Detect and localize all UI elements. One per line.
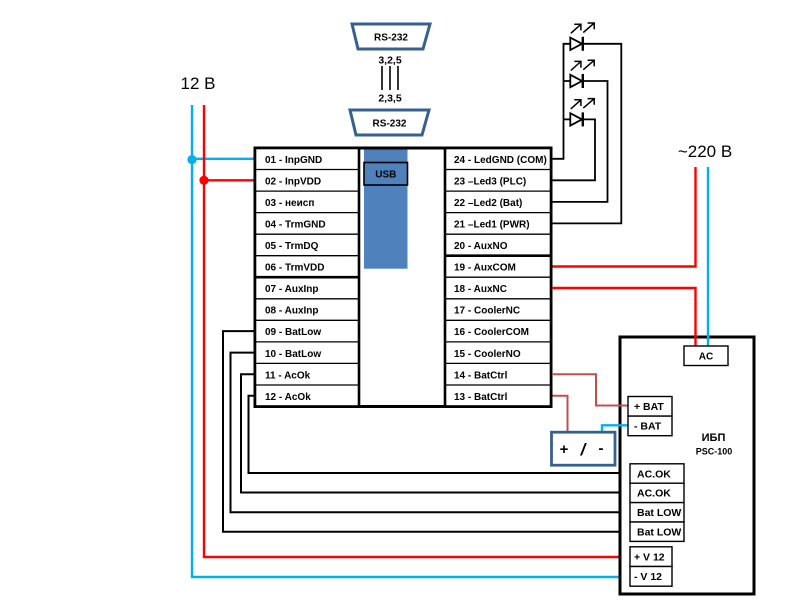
svg-text:24 - LedGND (COM): 24 - LedGND (COM) — [454, 155, 547, 166]
svg-text:02 - InpVDD: 02 - InpVDD — [265, 176, 321, 187]
svg-text:11 - AcOk: 11 - AcOk — [265, 370, 311, 381]
svg-text:07 - AuxInp: 07 - AuxInp — [265, 284, 319, 295]
svg-text:12 - AcOk: 12 - AcOk — [265, 392, 311, 403]
svg-text:22 –Led2 (Bat): 22 –Led2 (Bat) — [454, 198, 522, 209]
svg-text:PSC-100: PSC-100 — [696, 447, 733, 457]
svg-text:+ BAT: + BAT — [634, 401, 664, 413]
svg-text:+ V 12: + V 12 — [634, 551, 665, 563]
svg-text:12 В: 12 В — [181, 74, 216, 93]
svg-text:14 - BatCtrl: 14 - BatCtrl — [454, 370, 508, 381]
svg-text:16 - CoolerCOM: 16 - CoolerCOM — [454, 327, 529, 338]
svg-text:10 - BatLow: 10 - BatLow — [265, 349, 321, 360]
svg-text:RS-232: RS-232 — [373, 119, 407, 130]
svg-text:2,3,5: 2,3,5 — [378, 93, 402, 105]
svg-text:20 - AuxNO: 20 - AuxNO — [454, 241, 508, 252]
svg-text:03 - неисп: 03 - неисп — [265, 198, 314, 209]
svg-text:17 - CoolerNC: 17 - CoolerNC — [454, 306, 520, 317]
svg-text:08 - AuxInp: 08 - AuxInp — [265, 306, 319, 317]
svg-text:23 –Led3 (PLC): 23 –Led3 (PLC) — [454, 176, 526, 187]
svg-text:AC.OK: AC.OK — [637, 468, 671, 480]
svg-text:21 –Led1 (PWR): 21 –Led1 (PWR) — [454, 220, 530, 231]
svg-text:3,2,5: 3,2,5 — [378, 55, 402, 67]
svg-text:- V 12: - V 12 — [634, 571, 662, 583]
svg-text:18 - AuxNC: 18 - AuxNC — [454, 284, 507, 295]
svg-text:19 - AuxCOM: 19 - AuxCOM — [454, 263, 516, 274]
svg-text:RS-232: RS-232 — [374, 33, 408, 44]
svg-text:Bat LOW: Bat LOW — [637, 527, 681, 539]
svg-text:-: - — [599, 440, 604, 457]
svg-text:+: + — [560, 441, 569, 458]
svg-text:04 - TrmGND: 04 - TrmGND — [265, 220, 326, 231]
svg-text:AC.OK: AC.OK — [637, 488, 671, 500]
svg-text:01 - InpGND: 01 - InpGND — [265, 155, 322, 166]
svg-text:13 - BatCtrl: 13 - BatCtrl — [454, 392, 508, 403]
svg-text:06 - TrmVDD: 06 - TrmVDD — [265, 263, 324, 274]
svg-text:Bat LOW: Bat LOW — [637, 507, 681, 519]
svg-text:ИБП: ИБП — [702, 432, 726, 444]
svg-text:AC: AC — [699, 351, 713, 362]
svg-text:~220 В: ~220 В — [678, 142, 732, 161]
svg-text:05 - TrmDQ: 05 - TrmDQ — [265, 241, 319, 252]
svg-text:15 - CoolerNO: 15 - CoolerNO — [454, 349, 521, 360]
svg-text:USB: USB — [375, 169, 396, 180]
svg-text:09 - BatLow: 09 - BatLow — [265, 327, 321, 338]
svg-text:- BAT: - BAT — [634, 421, 662, 433]
